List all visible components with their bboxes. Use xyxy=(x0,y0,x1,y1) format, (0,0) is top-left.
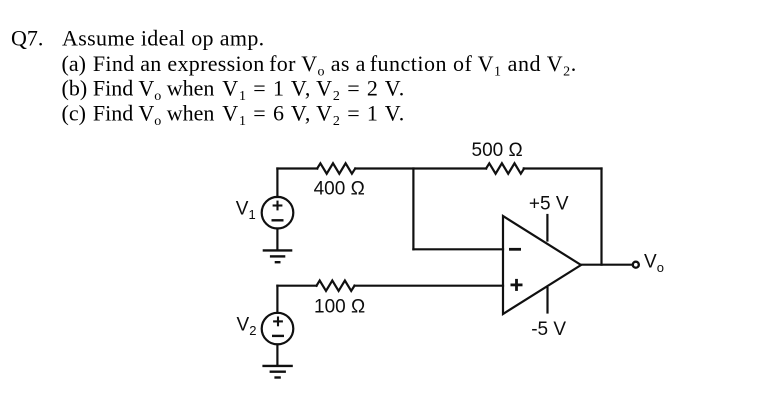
wire V1 bottom lead xyxy=(276,229,278,251)
op-amp output wire xyxy=(581,264,632,266)
svg-text:Find Vo when: Find Vo when xyxy=(93,101,214,130)
wire V2 top lead xyxy=(276,286,278,313)
resistor R1 400ohm xyxy=(317,163,355,173)
wire top from V1 to 400ohm xyxy=(277,167,317,169)
svg-text:(a): (a) xyxy=(62,51,86,76)
svg-text:Vo: Vo xyxy=(644,252,664,276)
svg-text:V1 and V2.: V1 and V2. xyxy=(478,51,577,80)
op-amp U1 xyxy=(503,216,581,314)
V1 source minus sign xyxy=(272,219,284,221)
voltage source V1 xyxy=(262,197,294,229)
resistor R3 100ohm xyxy=(317,281,355,291)
wire from V2 to 100ohm xyxy=(277,285,316,287)
output terminal node xyxy=(633,262,639,268)
wire to inverting input xyxy=(413,248,503,250)
V2 source minus sign xyxy=(272,335,284,337)
wire V1 top lead xyxy=(276,169,278,198)
svg-text:(b): (b) xyxy=(62,76,88,101)
ground for V2 xyxy=(262,366,292,378)
svg-text:V1: V1 xyxy=(236,198,256,222)
svg-text:V2 = 1 V.: V2 = 1 V. xyxy=(316,101,405,130)
svg-text:V1 = 6 V,: V1 = 6 V, xyxy=(222,101,311,130)
voltage source V2 xyxy=(262,313,294,345)
wire top middle between 400ohm and 500ohm xyxy=(355,167,486,169)
wire top right from 500ohm to feedback corner xyxy=(524,167,602,169)
op-amp non-inverting input plus symbol xyxy=(511,279,523,291)
V2 source plus sign xyxy=(273,317,283,327)
wire V2 bottom lead xyxy=(276,344,278,366)
svg-text:Assume ideal op amp.: Assume ideal op amp. xyxy=(62,26,265,51)
svg-text:500 Ω: 500 Ω xyxy=(472,140,523,161)
question text line (c) xyxy=(62,101,406,130)
svg-text:+5 V: +5 V xyxy=(529,194,569,215)
question text line 1 xyxy=(11,26,265,51)
svg-text:-5 V: -5 V xyxy=(531,319,566,340)
svg-text:100 Ω: 100 Ω xyxy=(314,297,365,318)
question text line (b) xyxy=(62,76,406,105)
svg-text:Q7.: Q7. xyxy=(11,26,43,51)
svg-text:V2: V2 xyxy=(237,314,257,338)
op-amp +5V supply lead xyxy=(546,215,548,241)
svg-text:Find an expression: Find an expression xyxy=(93,51,265,76)
wire to non-inverting input xyxy=(355,285,504,287)
op-amp -5V supply lead xyxy=(546,288,548,313)
svg-text:function of: function of xyxy=(370,51,473,76)
question text line (a) xyxy=(62,51,577,80)
svg-text:400 Ω: 400 Ω xyxy=(314,179,365,200)
op-amp inverting input minus symbol xyxy=(509,248,521,251)
resistor R2 500ohm xyxy=(486,163,524,173)
svg-text:(c): (c) xyxy=(62,101,86,126)
wire feedback vertical xyxy=(600,169,602,265)
V1 source plus sign xyxy=(273,201,283,211)
ground for V1 xyxy=(263,250,293,262)
node junction inverting branch xyxy=(412,169,414,250)
